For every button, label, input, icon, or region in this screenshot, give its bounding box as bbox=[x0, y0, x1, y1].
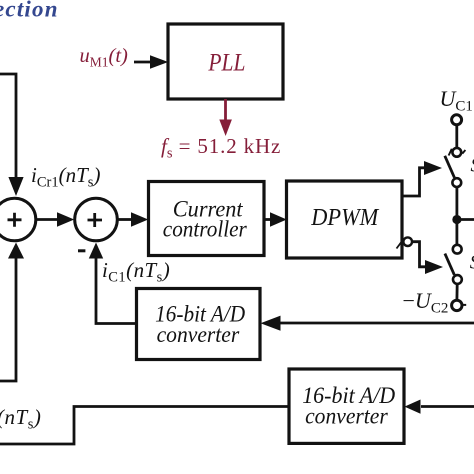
wire T1 to switch S_a bbox=[455, 125, 458, 147]
switch S_b blade bbox=[445, 254, 454, 275]
svg-text:fs = 51.2 kHz: fs = 51.2 kHz bbox=[161, 134, 281, 162]
svg-text:converter: converter bbox=[305, 404, 389, 429]
arrow to lower switch bbox=[425, 260, 443, 274]
switch S_b upper contact bbox=[453, 245, 462, 254]
wire junction to switch S_b bbox=[455, 224, 458, 245]
arrow into summing junction S1 top bbox=[8, 177, 23, 196]
switch S_a lower contact bbox=[452, 178, 461, 187]
block: ADC1 16-bit A/D converter bbox=[137, 289, 261, 360]
arrow into summing junction S2 bbox=[57, 212, 74, 226]
arrow into summing junction S1 bottom bbox=[8, 243, 24, 259]
wire u_M1 to PLL bbox=[134, 61, 151, 64]
minus sign at S2 bottom input bbox=[78, 249, 85, 252]
wire ADC2 output to left edge (step) bbox=[0, 407, 289, 445]
svg-text:S: S bbox=[471, 155, 474, 177]
wire from left edge into node A (top feed) bbox=[0, 74, 16, 179]
summing junction S1 bbox=[0, 198, 36, 241]
slash through bubble bbox=[397, 239, 404, 248]
summing junction S2 bbox=[75, 198, 118, 241]
arrow into PLL bbox=[150, 55, 168, 68]
wire from left edge bottom feed to summing junction S1 bbox=[0, 258, 16, 382]
plus sign in S2 bbox=[88, 213, 103, 227]
wire S1 to S2 bbox=[36, 218, 58, 221]
svg-text:controller: controller bbox=[163, 216, 248, 241]
junction node bbox=[452, 215, 461, 224]
block: DPWM U2 bbox=[287, 181, 403, 258]
wire from ADC1 up into S2 (feedback) bbox=[96, 259, 137, 324]
arrow into current controller bbox=[131, 212, 148, 226]
arrow to upper switch bbox=[424, 161, 442, 175]
arrow into S2 bottom bbox=[89, 243, 103, 259]
switch S_b lower contact bbox=[453, 275, 462, 284]
arrow into ADC1 right edge bbox=[261, 316, 281, 331]
terminal T1 bbox=[452, 115, 462, 125]
block: Current controller U1 bbox=[149, 182, 265, 256]
inverter bubble on DPWM output bbox=[403, 237, 412, 246]
plus sign in S1 bbox=[8, 213, 22, 227]
wire S_a to junction bbox=[455, 187, 458, 215]
svg-text:PLL: PLL bbox=[208, 50, 246, 77]
terminal T2 bbox=[452, 300, 462, 310]
arrow into ADC2 right edge bbox=[405, 400, 421, 414]
wire from right edge into ADC1 bbox=[277, 322, 474, 325]
wire from right edge into ADC2 bbox=[421, 405, 474, 408]
dash right of T2 bbox=[462, 304, 466, 306]
switch S_a blade bbox=[445, 156, 455, 178]
switch S_a upper contact bbox=[452, 148, 461, 157]
svg-text:DPWM: DPWM bbox=[310, 204, 379, 231]
wire junction to right edge bbox=[457, 218, 474, 221]
block: ADC2 16-bit A/D converter bbox=[289, 369, 404, 443]
gate wire upper from DPWM bbox=[402, 168, 425, 196]
arrow into DPWM bbox=[270, 212, 287, 226]
block: PLL U3 bbox=[168, 24, 283, 99]
maroon arrow down from PLL (sampling clock) bbox=[224, 99, 227, 121]
gate wire lower from DPWM bbox=[412, 242, 426, 267]
wire S_b to terminal T2 bbox=[455, 284, 458, 300]
wire current controller to DPWM bbox=[264, 218, 271, 221]
wire S2 to current controller bbox=[118, 218, 133, 221]
svg-text:(nTs): (nTs) bbox=[0, 405, 41, 433]
svg-text:S: S bbox=[470, 252, 474, 274]
svg-text:ection: ection bbox=[0, 0, 59, 22]
svg-text:converter: converter bbox=[157, 322, 241, 347]
switch S_a upper contact ticks bbox=[449, 149, 466, 156]
